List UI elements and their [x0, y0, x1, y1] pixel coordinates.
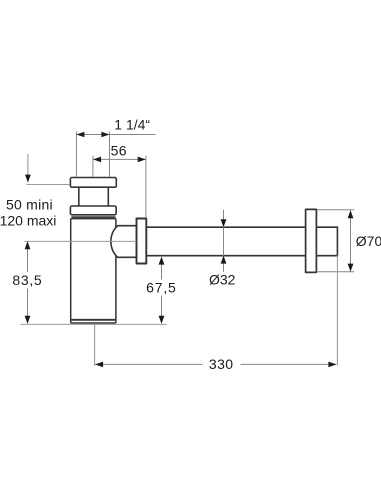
- svg-text:50 mini: 50 mini: [6, 197, 53, 213]
- svg-text:1 1/4“: 1 1/4“: [114, 117, 150, 133]
- svg-text:120 maxi: 120 maxi: [0, 213, 56, 229]
- svg-text:56: 56: [111, 142, 127, 158]
- svg-text:330: 330: [209, 356, 234, 372]
- svg-text:Ø70: Ø70: [356, 233, 381, 249]
- svg-text:Ø32: Ø32: [209, 272, 236, 288]
- svg-text:83,5: 83,5: [12, 272, 42, 288]
- svg-text:67,5: 67,5: [146, 280, 176, 296]
